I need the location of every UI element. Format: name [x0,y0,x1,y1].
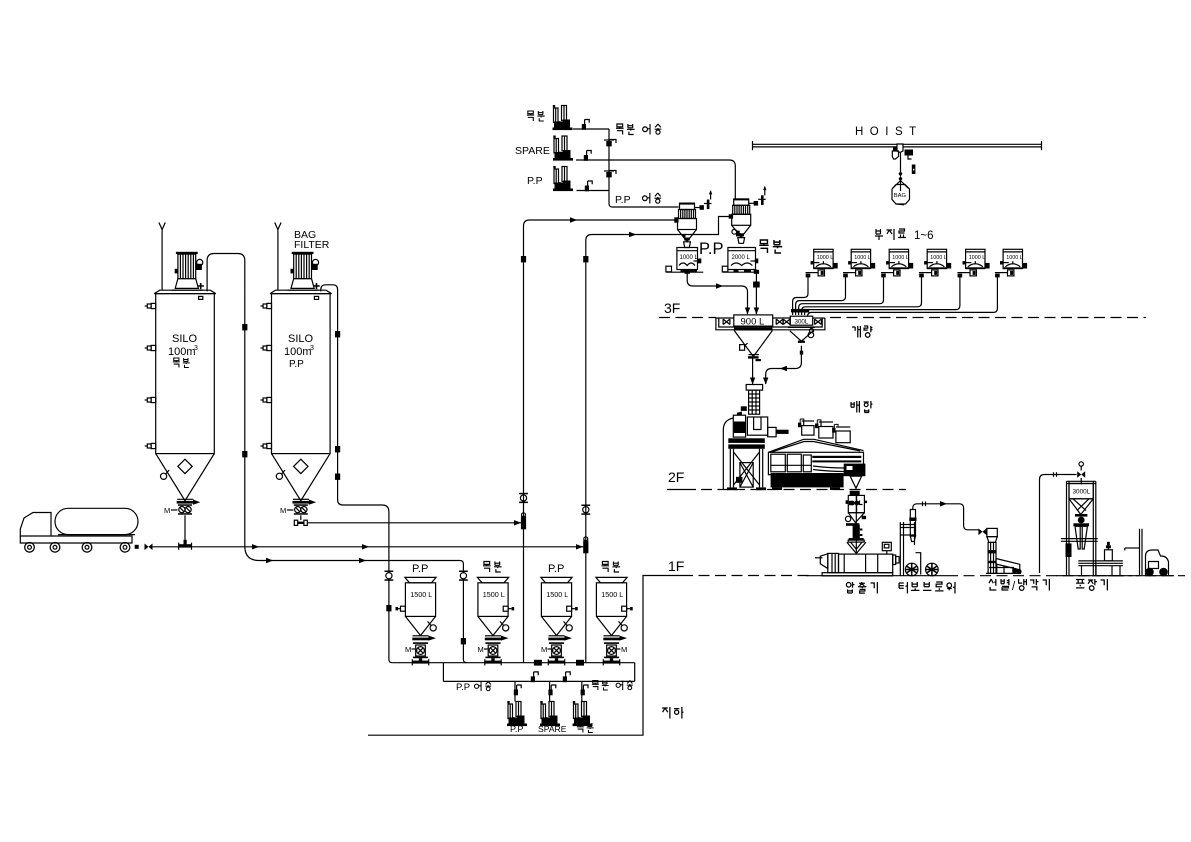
svg-text:M: M [164,506,170,515]
bag [892,185,910,205]
mixer side port [768,427,776,436]
truck unloading line [153,546,586,548]
mixer feed pipe [746,385,762,415]
truck outlet [135,545,139,549]
extruder hopper [847,495,866,553]
dust box D2 [815,420,833,438]
packer black post [1066,543,1072,557]
mixer discharge block [844,464,866,489]
900L cone [734,331,772,357]
floor line 3F right (weighing level) [830,317,1146,319]
label mokbun transfer [616,124,624,135]
svg-text:300L: 300L [795,318,809,325]
extruder body [839,554,893,573]
label mixing [851,401,859,412]
packer frame [1067,481,1096,575]
hoist trolley [893,144,913,159]
forklift fork [1125,547,1140,549]
support tower [727,449,766,490]
svg-text:SPARE: SPARE [538,724,567,734]
label U3 [577,723,584,733]
900L discharge valve [748,355,761,362]
label classifier/cooler [989,579,996,590]
svg-text:M: M [280,506,286,515]
inline valve V1 on collector [604,140,616,147]
hoist hook housing [892,151,898,159]
screw feeder [846,523,862,538]
pipe bin2 to 900L hopper [755,270,757,315]
mixer windows [771,454,812,472]
collection header [392,662,635,664]
valve on B3 pipe [585,181,592,191]
mixer side stripes [812,456,861,472]
pipe silo S2 discharge [300,515,302,520]
svg-text:3: 3 [194,345,198,352]
platform bowties [723,319,730,324]
mixer body [768,452,863,474]
aux hopper AH3 [886,249,913,276]
receiver bin 2000L [722,248,758,273]
riser R1 lower part [523,232,525,663]
turbo riser pipe [909,510,916,542]
pipe AH6 to weigh hopper [995,272,1008,274]
svg-text:M: M [478,645,484,654]
lower header [443,680,634,682]
aux hopper AH6 [1000,249,1027,276]
label mokbun at bin2 [759,240,768,253]
turbo outlet pipe [913,504,979,530]
svg-text:100m: 100m [284,346,312,358]
pipe 900L to mixer [752,358,754,384]
aux hopper AH2 [848,249,875,276]
blower fan F2 [926,563,939,576]
svg-text:1000 L: 1000 L [680,255,699,261]
header step [442,663,444,682]
flange [503,606,514,611]
discharge drop vessel [846,491,868,513]
P.P suction line y523 [307,522,523,524]
mixer vent line [723,418,733,489]
truck wheels [25,543,35,553]
pipe B1 outlet [573,128,609,130]
svg-text:SILO: SILO [172,333,198,345]
aux hopper AH1 [811,249,838,276]
svg-text:M: M [405,645,411,654]
valve on drop D1 [385,571,394,581]
svg-text:100m: 100m [168,346,196,358]
svg-text:P.P: P.P [615,194,631,206]
mixer body roof [768,439,863,452]
aux hopper AH4 [924,249,951,276]
feed pipe to CY1 [524,220,677,232]
blower unit B1 (mokbun) [553,105,573,130]
suction drop 3 [581,681,583,701]
extruder shaft [815,557,823,559]
pipe bin1 to 900L hopper [687,270,747,315]
hoist chain [900,153,902,173]
weigh hopper 300L [790,316,812,325]
header end closure [634,663,636,682]
classifier head [985,528,997,542]
platform deck [728,438,765,443]
label weighing [852,326,860,337]
svg-text:P.P: P.P [548,563,564,575]
svg-text:FILTER: FILTER [294,239,330,251]
classifier column [988,542,997,573]
basement boundary [368,576,682,736]
label extruder [846,582,854,593]
svg-text:900 L: 900 L [741,317,765,328]
hoist rail [753,143,1042,145]
cyclone CY1 [678,190,713,248]
svg-text:3F: 3F [664,300,680,316]
svg-text:P.P: P.P [527,175,543,187]
flange [567,606,578,611]
pipe silo S1 vent loop [207,254,245,547]
feeder cap [849,538,864,540]
flange [622,606,633,611]
pipe silo S2 vent loop [321,285,392,663]
label packer [1076,580,1084,588]
mixer side arm [776,430,789,434]
svg-text:3: 3 [310,345,314,352]
ground line under packer [1056,575,1132,577]
pipe silo S1 discharge [184,515,186,541]
900L support pad [734,328,773,331]
svg-text:1F: 1F [668,558,684,574]
flange H1 [396,606,406,611]
weigh hopper 900L [734,315,773,326]
svg-text:2000 L: 2000 L [732,255,751,261]
basement blower U2 [540,701,560,726]
valve at truck [145,544,153,551]
ground line under forklift [1136,575,1174,577]
label H2 [483,562,491,573]
pipe AH2 to weigh hopper [843,272,856,274]
valve on B1 pipe [582,120,589,130]
svg-text:SPARE: SPARE [515,145,550,157]
300L cone [790,331,813,341]
pipe S1 loop lower bend [245,546,259,561]
turbo blower frame [900,522,914,576]
pipe cooler to packer [1040,475,1077,574]
label P.P transfer [642,193,649,204]
control box [882,542,891,554]
basement blower U1 [507,701,527,726]
label turbo blower [899,582,907,593]
cyclone CY2 [732,186,767,244]
silo S1 [145,223,216,515]
tee on truck line [179,540,192,550]
extruder nozzle [820,554,828,569]
svg-text:SILO: SILO [288,333,314,345]
coupling [893,555,899,565]
forklift wheels [1145,568,1154,577]
feed pipe side valve [741,406,747,411]
dust box D3 [832,424,850,442]
bag on conveyor [1105,542,1113,561]
riser R1 (to CY1) valve [519,493,528,503]
svg-text:1~6: 1~6 [914,230,934,242]
svg-text:HOIST: HOIST [855,126,923,138]
floor line 1F solid under extruder [806,575,947,577]
suction drop 2 [549,681,551,701]
label H4 [601,562,609,573]
svg-text:P.P: P.P [699,240,723,258]
svg-text:M: M [621,645,627,654]
filling bags [1075,526,1087,549]
vessel cone [848,513,864,523]
roller conveyor [1078,561,1124,576]
bag sling [893,181,909,192]
inline valve V2 on collector [604,171,616,178]
pipe B3 outlet [577,190,610,192]
valves on lower header [531,672,538,682]
truck tank [55,508,138,534]
packer filling valve [1073,514,1089,526]
mixer base [771,473,844,487]
pipe AH1 to weigh hopper [806,272,819,274]
truck cab [20,513,51,537]
blower unit B3 (P.P) [553,166,573,191]
transfer line y560 [259,561,467,663]
valve on drop D2 [459,571,468,581]
forklift body [1146,550,1169,575]
cooler conveyor [986,559,1022,575]
300L discharge valve [798,341,805,355]
bag platform [1061,538,1098,540]
floor line 1F [682,575,810,577]
basement hopper H1 [405,577,436,665]
silo S2 [261,223,332,515]
riser R2 lower part [585,246,587,663]
label B1 [527,111,534,121]
mixer feet [772,487,782,490]
forklift mast [1139,529,1141,575]
packer inlet valve [1077,462,1085,478]
receiver bin 1000L [666,248,703,273]
feed pipe to CY2 [586,217,731,247]
riser R2 (to CY2) valve [581,505,590,515]
label mokbun transfer (basement) [592,681,599,691]
svg-text:P.P: P.P [289,359,304,370]
hoist weight flag [912,165,916,175]
svg-text:P.P: P.P [456,682,470,693]
svg-text:BAG: BAG [894,193,907,199]
extruder base [822,573,893,576]
svg-text:2F: 2F [668,469,684,485]
svg-text:3000L: 3000L [1073,489,1091,496]
platform top segments [716,317,734,319]
vertical collector pipe to cyclone CY1 [609,129,679,207]
basement hopper H4 [596,577,627,665]
valve on S2 discharge [294,520,307,525]
inlet valve [979,529,987,536]
basement blower U3 [573,701,593,726]
floor line 3F left [659,317,716,319]
pipe AH4 to weigh hopper [919,272,932,274]
platform frame [716,318,825,330]
svg-text:P.P: P.P [510,724,523,734]
basement hopper H3 [541,577,572,665]
label bujiryo 1~6 [875,229,883,240]
pipe B2 outlet (SPARE header) [576,160,735,200]
blower unit B2 (spare) [553,136,573,161]
900L cone fitting [740,345,745,351]
suction drop 1 [514,681,516,701]
300L vibrator [809,329,813,333]
pipe 300L to mixer [766,346,802,384]
premix vessel [733,412,745,438]
valve on B2 pipe [584,151,591,161]
mixer head [747,417,767,435]
svg-text:P.P: P.P [412,563,428,575]
label basement [662,707,670,718]
svg-text:M: M [541,645,547,654]
blower fan F1 [905,563,918,576]
basement hopper H2 [477,577,508,665]
pipe AH5 to weigh hopper [957,272,970,274]
dust box D1 [798,419,814,435]
aux hopper AH5 [963,249,990,276]
blower drain [916,553,921,575]
truck chassis [20,536,132,543]
pipe AH3 to weigh hopper [881,272,894,274]
floor line 2F [667,489,696,491]
extruder head [828,553,839,572]
packer hopper 3000L [1069,484,1093,515]
